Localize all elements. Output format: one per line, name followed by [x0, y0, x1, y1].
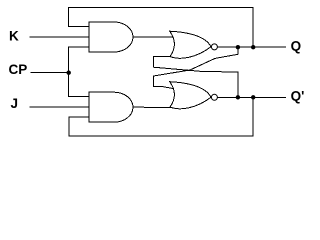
svg-text:CP: CP [9, 62, 28, 77]
svg-text:K: K [9, 29, 19, 44]
svg-text:Q: Q [291, 39, 302, 54]
svg-text:J: J [11, 96, 19, 111]
svg-text:Q': Q' [291, 88, 305, 103]
